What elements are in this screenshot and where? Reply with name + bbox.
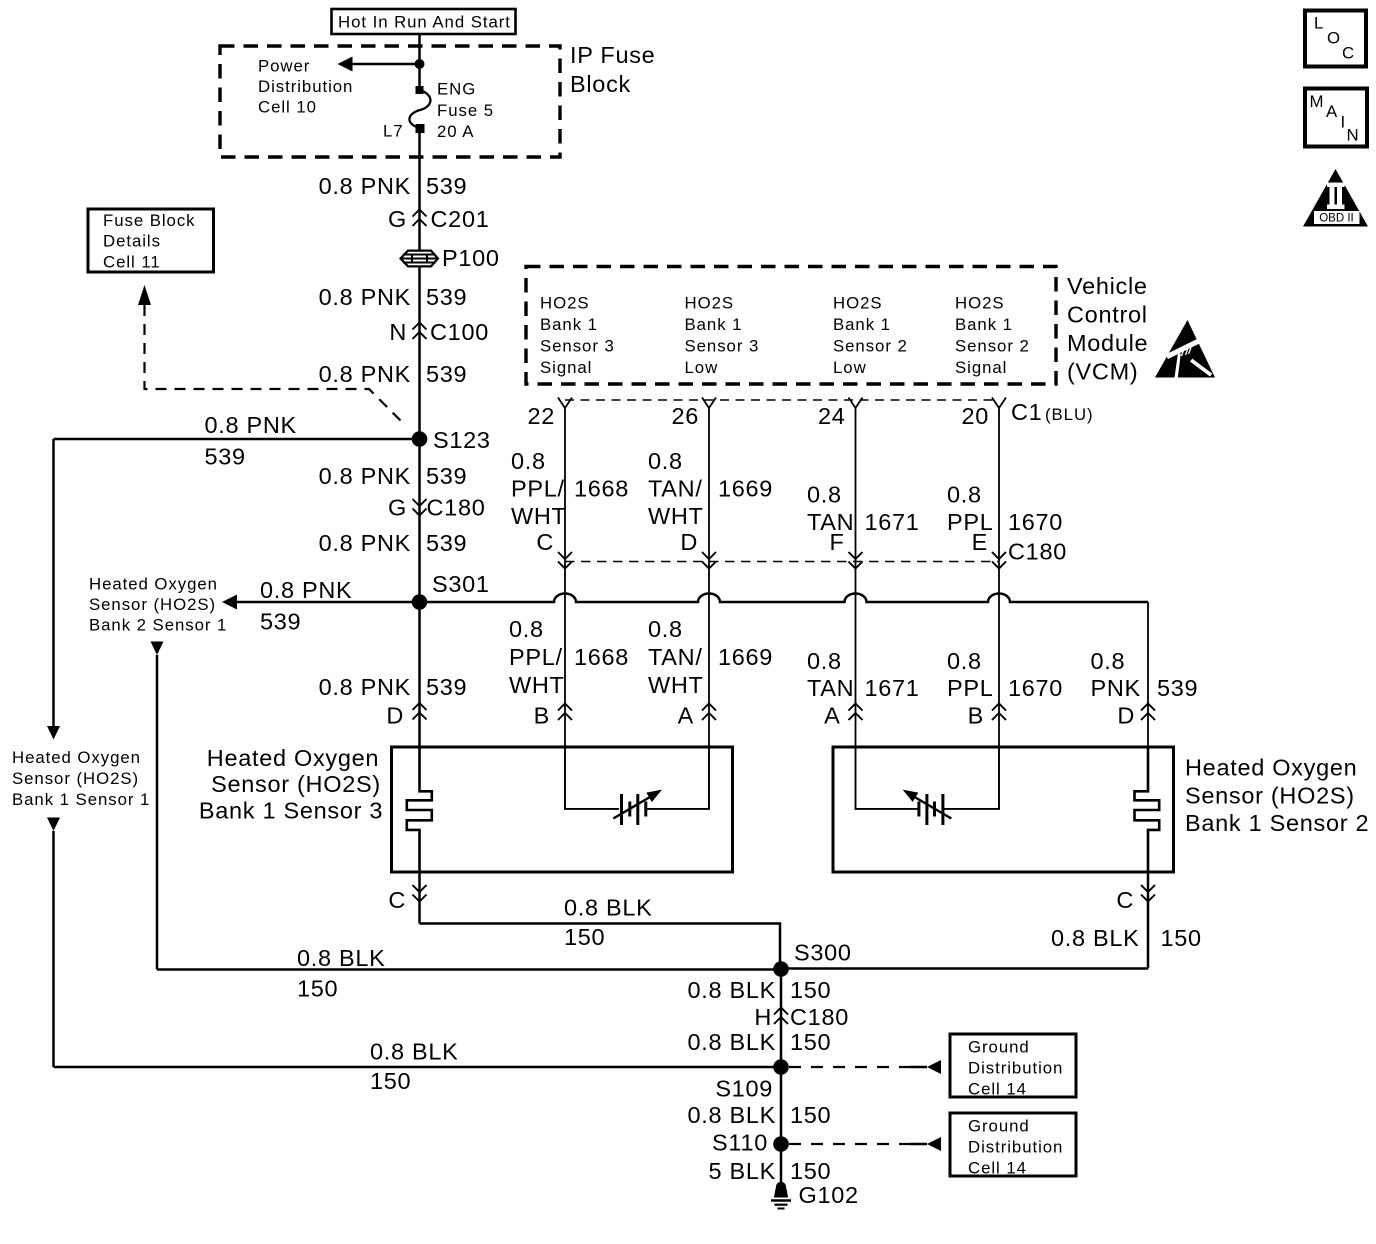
svg-text:0.8 BLK: 0.8 BLK <box>687 977 776 1003</box>
svg-text:N: N <box>1347 126 1360 145</box>
svg-text:539: 539 <box>426 463 467 489</box>
fuse ENG Fuse 5 20 A <box>416 86 424 94</box>
svg-text:Signal: Signal <box>540 358 592 377</box>
svg-text:D: D <box>386 703 404 729</box>
svg-text:F: F <box>829 529 844 555</box>
svg-text:Low: Low <box>833 358 867 377</box>
svg-text:Sensor 2: Sensor 2 <box>955 337 1030 356</box>
connector C180 pin D <box>702 552 716 559</box>
connector pin C left sensor <box>418 872 421 924</box>
svg-text:N: N <box>389 319 407 345</box>
wire VCM pin to C180 (circuit 1668) <box>564 420 566 571</box>
wire to HO2S Bank 2 Sensor 1 ground <box>151 642 164 656</box>
svg-text:Fuse Block: Fuse Block <box>103 211 196 230</box>
svg-text:Power: Power <box>258 57 310 76</box>
svg-text:1669: 1669 <box>718 644 773 670</box>
connector C180 pin C <box>558 552 572 559</box>
svg-text:Sensor 2: Sensor 2 <box>833 337 908 356</box>
svg-text:Sensor 3: Sensor 3 <box>540 337 615 356</box>
svg-text:(VCM): (VCM) <box>1067 359 1138 385</box>
arrowhead to Power Distribution <box>338 57 353 72</box>
svg-text:0.8: 0.8 <box>947 482 982 508</box>
svg-text:C: C <box>388 887 406 913</box>
svg-text:0.8 PNK: 0.8 PNK <box>319 463 411 489</box>
OBD II icon <box>1303 169 1368 227</box>
O2 sense cell right sensor <box>917 802 920 817</box>
svg-text:G102: G102 <box>799 1182 859 1208</box>
wire from Hot In Run And Start to IP fuse block <box>418 34 421 64</box>
svg-text:539: 539 <box>1157 675 1198 701</box>
svg-text:C: C <box>1342 44 1355 63</box>
wire C180 to sensor (circuit 1670) <box>998 571 1000 747</box>
svg-text:150: 150 <box>790 1158 831 1184</box>
connector C1 pin 26 fork <box>702 398 716 409</box>
svg-text:0.8: 0.8 <box>947 648 982 674</box>
svg-text:Heated Oxygen: Heated Oxygen <box>12 748 141 767</box>
svg-text:B: B <box>534 703 550 729</box>
svg-text:26: 26 <box>671 403 699 429</box>
svg-text:150: 150 <box>564 924 605 950</box>
svg-text:Distribution: Distribution <box>968 1138 1063 1157</box>
wire left sensor C to S300 <box>420 924 781 970</box>
svg-text:539: 539 <box>426 530 467 556</box>
svg-text:Sensor (HO2S): Sensor (HO2S) <box>12 769 139 788</box>
connector C180 pin G <box>413 499 427 506</box>
svg-text:Bank 2 Sensor 1: Bank 2 Sensor 1 <box>89 616 227 635</box>
sensor connector pin B (x=999) <box>992 704 1006 711</box>
wire S301 to left sensor pin D <box>418 602 421 747</box>
wire VCM pin to C180 (circuit 1670) <box>998 420 1000 571</box>
wire S123 branch left <box>54 438 420 441</box>
wire C100 to S123 <box>418 340 421 439</box>
svg-text:1671: 1671 <box>865 675 920 701</box>
svg-text:S109: S109 <box>715 1076 773 1102</box>
svg-text:Bank 1: Bank 1 <box>685 315 743 334</box>
svg-text:Details: Details <box>103 232 161 251</box>
svg-text:S301: S301 <box>432 571 490 597</box>
IP fuse block dashed box <box>220 46 560 157</box>
svg-text:WHT: WHT <box>648 503 704 529</box>
svg-text:HO2S: HO2S <box>540 294 590 313</box>
wire C180 to sensor (circuit 1669) <box>708 571 710 747</box>
wire S301 horizontal with hops <box>237 594 1148 603</box>
svg-text:0.8 BLK: 0.8 BLK <box>1051 925 1140 951</box>
heater element right sensor <box>1135 747 1160 872</box>
wire pin A into left sensor <box>647 747 709 809</box>
svg-text:20: 20 <box>961 403 989 429</box>
svg-text:C1: C1 <box>1011 399 1042 425</box>
svg-text:Sensor (HO2S): Sensor (HO2S) <box>89 595 216 614</box>
connector C1 pin 20 fork <box>992 398 1006 409</box>
wire C180 to sensor (circuit 1671) <box>855 571 857 747</box>
svg-text:IP Fuse: IP Fuse <box>570 42 655 68</box>
svg-text:PPL/: PPL/ <box>511 476 565 502</box>
wire S109 to S110 <box>780 1067 783 1144</box>
svg-text:C: C <box>1116 887 1134 913</box>
svg-text:D: D <box>680 529 698 555</box>
Fuse Block Details Cell 11 box <box>88 209 214 272</box>
ground G102 <box>776 1182 786 1192</box>
svg-text:Module: Module <box>1067 330 1148 356</box>
wire fuse to C201 <box>418 128 421 250</box>
svg-text:539: 539 <box>426 361 467 387</box>
wire VCM pin to C180 (circuit 1669) <box>708 420 710 571</box>
svg-text:WHT: WHT <box>509 672 565 698</box>
svg-text:539: 539 <box>426 173 467 199</box>
svg-text:Cell 10: Cell 10 <box>258 98 317 117</box>
svg-text:Distribution: Distribution <box>258 77 353 96</box>
svg-text:L7: L7 <box>383 122 404 141</box>
svg-text:Control: Control <box>1067 302 1148 328</box>
svg-text:Heated Oxygen: Heated Oxygen <box>207 745 379 771</box>
wire pin B into left sensor <box>565 747 619 809</box>
svg-text:A: A <box>678 703 694 729</box>
svg-text:150: 150 <box>1161 925 1202 951</box>
arrowhead to HO2S Bank 1 Sensor 1 <box>47 726 60 740</box>
svg-text:24: 24 <box>818 403 846 429</box>
svg-text:WHT: WHT <box>511 503 567 529</box>
svg-text:S300: S300 <box>794 940 852 966</box>
svg-text:M: M <box>1310 92 1325 111</box>
svg-text:Fuse 5: Fuse 5 <box>437 101 494 120</box>
splice S300 <box>773 961 789 977</box>
arrowhead to Fuse Block Details <box>138 285 151 305</box>
svg-text:Bank 1: Bank 1 <box>540 315 598 334</box>
splice S301 <box>412 594 428 610</box>
svg-text:0.8 BLK: 0.8 BLK <box>564 895 653 921</box>
svg-text:Heated Oxygen: Heated Oxygen <box>1185 755 1357 781</box>
O2 sense cell left sensor <box>620 794 623 825</box>
svg-text:0.8 PNK: 0.8 PNK <box>319 361 411 387</box>
svg-text:HO2S: HO2S <box>685 294 735 313</box>
svg-text:0.8: 0.8 <box>648 448 683 474</box>
connector pin D right sensor <box>1141 704 1155 711</box>
svg-text:C180: C180 <box>427 495 486 521</box>
connector C1 pin 24 fork <box>849 398 863 409</box>
wire S110 to G102 <box>780 1144 783 1188</box>
sensor connector pin B (x=565) <box>558 704 572 711</box>
LOC reference icon <box>1305 11 1366 67</box>
svg-text:Cell 14: Cell 14 <box>968 1080 1027 1099</box>
svg-text:TAN: TAN <box>807 675 854 701</box>
dashed reference to Ground Distribution (S110) <box>789 1143 913 1145</box>
splice S109 <box>773 1059 789 1075</box>
svg-text:C180: C180 <box>1008 539 1067 565</box>
svg-text:B: B <box>968 703 984 729</box>
svg-text:Bank 1: Bank 1 <box>955 315 1013 334</box>
svg-text:0.8: 0.8 <box>1091 648 1126 674</box>
connector C180 pin H <box>774 1008 788 1015</box>
svg-text:A: A <box>1326 102 1338 121</box>
svg-text:Signal: Signal <box>955 358 1007 377</box>
sensor connector pin A (x=855.5) <box>849 704 863 711</box>
MAIN reference icon <box>1305 89 1367 147</box>
arrowhead to HO2S Bank 2 Sensor 1 <box>222 595 237 610</box>
svg-text:O: O <box>1327 29 1341 48</box>
svg-text:22: 22 <box>527 403 555 429</box>
svg-text:0.8 PNK: 0.8 PNK <box>319 284 411 310</box>
svg-text:0.8 PNK: 0.8 PNK <box>260 577 352 603</box>
svg-text:Bank 1 Sensor 1: Bank 1 Sensor 1 <box>12 790 150 809</box>
svg-text:Ground: Ground <box>968 1038 1030 1057</box>
svg-text:Distribution: Distribution <box>968 1059 1063 1078</box>
svg-text:HO2S: HO2S <box>833 294 883 313</box>
svg-text:150: 150 <box>370 1068 411 1094</box>
Vehicle Control Module dashed box <box>526 267 1056 385</box>
svg-text:0.8 BLK: 0.8 BLK <box>687 1029 776 1055</box>
connector C180 pin E <box>992 552 1006 559</box>
svg-text:0.8 PNK: 0.8 PNK <box>205 412 297 438</box>
svg-text:L: L <box>1314 14 1324 33</box>
svg-text:Bank 1: Bank 1 <box>833 315 891 334</box>
svg-text:PPL: PPL <box>947 675 994 701</box>
svg-text:Bank 1 Sensor 3: Bank 1 Sensor 3 <box>199 798 383 824</box>
svg-text:ENG: ENG <box>437 80 476 99</box>
svg-text:5 BLK: 5 BLK <box>708 1158 776 1184</box>
wire P100 to C100 <box>418 267 421 340</box>
svg-text:Bank 1 Sensor 2: Bank 1 Sensor 2 <box>1185 810 1369 836</box>
svg-text:PPL/: PPL/ <box>509 644 563 670</box>
svg-text:0.8: 0.8 <box>509 616 544 642</box>
node label: Hot In Run And Start box <box>332 9 516 34</box>
svg-text:HO2S: HO2S <box>955 294 1005 313</box>
svg-text:539: 539 <box>260 609 301 635</box>
connector pin D left sensor <box>413 703 427 710</box>
svg-text:A: A <box>824 703 840 729</box>
svg-text:P100: P100 <box>442 245 500 271</box>
svg-text:20 A: 20 A <box>437 122 474 141</box>
wire into fuse <box>418 64 421 90</box>
svg-text:OBD II: OBD II <box>1319 213 1354 225</box>
connector C201 pin G <box>413 210 427 217</box>
svg-text:Heated Oxygen: Heated Oxygen <box>89 575 218 594</box>
connector C1 dashed link line <box>565 399 999 401</box>
svg-text:0.8: 0.8 <box>807 482 842 508</box>
connector C100 pin N <box>413 323 427 330</box>
ESD sensitive icon <box>1155 320 1215 378</box>
wire to Power Distribution <box>352 63 420 66</box>
wire C180 to sensor (circuit 1668) <box>564 571 566 747</box>
svg-text:539: 539 <box>426 674 467 700</box>
svg-text:TAN/: TAN/ <box>648 644 703 670</box>
wire pin B into right sensor <box>944 747 999 809</box>
svg-text:H: H <box>754 1004 772 1030</box>
wire VCM pin to C180 (circuit 1671) <box>855 420 857 571</box>
connector C1 pin 22 fork <box>558 398 572 409</box>
HO2S Bank 1 Sensor 3 box <box>392 747 733 872</box>
svg-text:0.8 BLK: 0.8 BLK <box>687 1102 776 1128</box>
svg-text:1670: 1670 <box>1008 509 1063 535</box>
svg-text:Low: Low <box>685 358 719 377</box>
dashed reference to Ground Distribution (S109) <box>789 1066 913 1068</box>
svg-text:1670: 1670 <box>1008 675 1063 701</box>
dashed reference wire to Fuse Block Details <box>145 305 405 424</box>
svg-text:0.8: 0.8 <box>648 616 683 642</box>
svg-text:C: C <box>536 529 554 555</box>
svg-text:0.8 BLK: 0.8 BLK <box>297 945 386 971</box>
Ground Distribution Cell 14 box (upper) <box>950 1034 1076 1097</box>
svg-text:1668: 1668 <box>574 476 629 502</box>
svg-text:150: 150 <box>790 1102 831 1128</box>
svg-text:Ground: Ground <box>968 1117 1030 1136</box>
svg-text:G: G <box>388 206 407 232</box>
connector C180 dashed pass-through line <box>565 561 999 563</box>
grommet P100 <box>401 251 439 267</box>
svg-text:150: 150 <box>790 1029 831 1055</box>
svg-text:Hot In Run And Start: Hot In Run And Start <box>338 13 511 32</box>
connector pin C right sensor <box>1147 872 1150 969</box>
svg-text:150: 150 <box>297 976 338 1002</box>
wire right sensor C to S300 <box>781 967 1148 970</box>
wire S301 to right sensor pin D <box>1147 602 1149 747</box>
svg-text:TAN/: TAN/ <box>648 476 703 502</box>
svg-text:PNK: PNK <box>1091 675 1141 701</box>
wire pin A into right sensor <box>856 747 920 809</box>
svg-text:539: 539 <box>426 284 467 310</box>
svg-text:S123: S123 <box>433 427 491 453</box>
svg-text:C201: C201 <box>431 206 490 232</box>
svg-text:0.8 PNK: 0.8 PNK <box>319 674 411 700</box>
svg-text:(BLU): (BLU) <box>1045 405 1094 424</box>
svg-text:150: 150 <box>790 977 831 1003</box>
svg-text:WHT: WHT <box>648 672 704 698</box>
svg-text:Block: Block <box>570 71 631 97</box>
wire C180 to S301 <box>418 516 421 602</box>
wire S300 to C180 pin H <box>780 969 783 1067</box>
svg-text:0.8 PNK: 0.8 PNK <box>319 173 411 199</box>
HO2S Bank 1 Sensor 2 box <box>833 747 1174 872</box>
connector C180 pin F <box>849 552 863 559</box>
svg-text:1671: 1671 <box>865 509 920 535</box>
sensor connector pin A (x=709) <box>702 704 716 711</box>
svg-text:0.8 PNK: 0.8 PNK <box>319 530 411 556</box>
svg-text:Sensor (HO2S): Sensor (HO2S) <box>211 771 381 797</box>
svg-text:539: 539 <box>205 444 246 470</box>
svg-text:G: G <box>388 495 407 521</box>
wire to HO2S Bank 1 Sensor 1 ground <box>47 818 60 832</box>
Ground Distribution Cell 14 box (lower) <box>950 1113 1076 1176</box>
svg-text:C180: C180 <box>790 1004 849 1030</box>
svg-text:C100: C100 <box>430 319 489 345</box>
svg-text:Sensor 3: Sensor 3 <box>685 337 760 356</box>
splice S110 <box>773 1136 789 1152</box>
svg-text:E: E <box>972 529 988 555</box>
svg-text:Vehicle: Vehicle <box>1067 273 1148 299</box>
svg-text:S110: S110 <box>712 1130 768 1156</box>
wire S123 to C180 <box>418 439 421 516</box>
svg-text:0.8 BLK: 0.8 BLK <box>370 1039 459 1065</box>
svg-text:Cell 14: Cell 14 <box>968 1159 1027 1178</box>
svg-text:1668: 1668 <box>574 644 629 670</box>
svg-text:0.8: 0.8 <box>807 648 842 674</box>
wire to HO2S Bank 1 Sensor 1 <box>52 439 55 726</box>
svg-text:D: D <box>1117 703 1135 729</box>
junction at fuse feed <box>415 59 425 69</box>
svg-text:I: I <box>1341 113 1347 132</box>
heater element left sensor <box>407 747 432 872</box>
svg-text:Sensor (HO2S): Sensor (HO2S) <box>1185 783 1355 809</box>
svg-text:1669: 1669 <box>718 476 773 502</box>
svg-text:0.8: 0.8 <box>511 448 546 474</box>
svg-text:Cell 11: Cell 11 <box>103 253 161 272</box>
splice S123 <box>412 431 428 447</box>
